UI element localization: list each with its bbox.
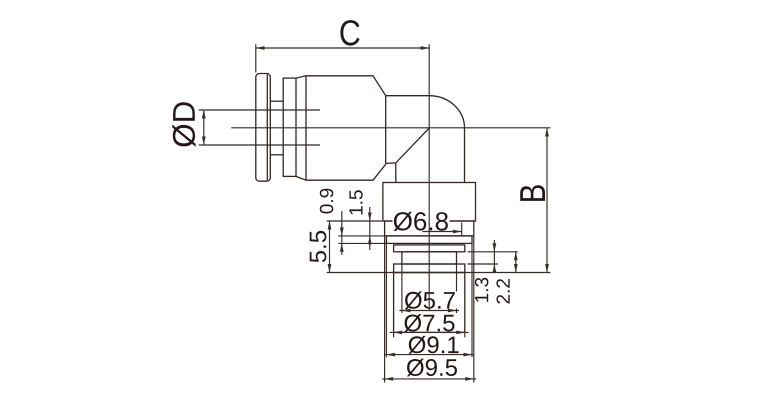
- cap inner edge: [266, 75, 268, 181]
- dimension 2.2 line: [515, 252, 517, 273]
- arrow 0.9 lower: [340, 243, 344, 252]
- label 2.2: [496, 279, 509, 304]
- dimension OD line: [203, 110, 205, 145]
- extension flange top left: [338, 235, 386, 237]
- arrow C left: [256, 46, 265, 50]
- extension 5.7 right: [456, 264, 458, 313]
- arrow 2.2 top: [514, 252, 518, 260]
- label 5.7: [405, 291, 455, 309]
- label 9.1: [409, 336, 459, 354]
- dimension 7.5 line: [390, 331, 469, 333]
- label 5.7 background: [404, 292, 458, 309]
- washer section: [385, 221, 474, 236]
- elbow outer: [386, 96, 465, 183]
- extension flange bottom left: [338, 242, 386, 244]
- dimension B line: [546, 128, 548, 273]
- extension 9.1 left: [385, 243, 387, 357]
- extension 6.8: [461, 223, 463, 236]
- label 0.9: [320, 189, 334, 214]
- arrow 9.5 right: [465, 377, 474, 381]
- extension groove top right: [468, 251, 518, 253]
- hex nut: [383, 183, 476, 222]
- arrow 1.5 lower: [368, 236, 372, 245]
- extension 7.5 right: [464, 332, 466, 337]
- extension 7.5 left: [393, 332, 395, 337]
- extension 9.5 right: [473, 236, 475, 383]
- label 6.8: [394, 212, 448, 231]
- label 1.5: [349, 190, 362, 214]
- dimension 1.5 line: [369, 207, 371, 250]
- arrow 1.3 upper: [493, 243, 497, 252]
- label 6.8 background: [393, 210, 450, 231]
- label B: [520, 185, 545, 201]
- centerline horizontal: [231, 127, 550, 129]
- arrow 5.5 bottom: [328, 264, 332, 273]
- thread barrel: [394, 273, 465, 333]
- arrow B bottom: [545, 264, 549, 273]
- extension line C left: [255, 44, 257, 72]
- arrow 9.1 right: [464, 353, 473, 357]
- arrow 6.8: [453, 230, 462, 234]
- extension groove bottom right: [468, 263, 499, 265]
- arrow 1.5 upper: [368, 213, 372, 222]
- arrow OD down: [202, 137, 206, 146]
- bore line upper: [199, 109, 320, 111]
- arrow 2.2 bottom: [514, 264, 518, 273]
- collet ring: [283, 78, 296, 176]
- dimension 0.9 line: [341, 211, 343, 255]
- dimension 9.1 line: [384, 354, 474, 356]
- label 5.5: [310, 231, 327, 262]
- dimension 5.7 line: [399, 310, 459, 312]
- upper lip: [394, 245, 465, 252]
- lower lip: [394, 264, 465, 273]
- arrow 5.5 top: [328, 221, 332, 230]
- leader 6.8 line: [422, 231, 461, 233]
- extension nut bottom left: [327, 220, 383, 222]
- arrow 9.5 left: [385, 377, 394, 381]
- arrow OD up: [202, 110, 206, 119]
- label C: [340, 20, 359, 46]
- arrow C right: [421, 46, 430, 50]
- label 7.5 background: [404, 314, 456, 332]
- dimension 9.5 line: [382, 378, 476, 380]
- body outline: [296, 76, 386, 180]
- arrow 0.9 upper: [340, 227, 344, 236]
- groove: [402, 252, 457, 264]
- extension thread start full: [327, 272, 551, 274]
- arrow 7.5 left: [394, 331, 403, 335]
- arrow B top: [545, 128, 549, 137]
- dimension 1.3 line: [493, 240, 495, 273]
- arrow 1.3 lower: [493, 264, 497, 273]
- dimension C line: [256, 47, 429, 49]
- dimension 5.5 line: [329, 221, 331, 273]
- label 1.3: [475, 278, 489, 302]
- label 7.5: [404, 314, 454, 332]
- centerline vertical: [428, 44, 430, 310]
- arrow 5.7 right: [448, 309, 457, 313]
- arrow 7.5 right: [456, 331, 465, 335]
- tube step lower line: [270, 154, 283, 156]
- release ring cap: [256, 74, 270, 182]
- elbow inner: [386, 128, 430, 183]
- arrow 5.7 left: [402, 309, 411, 313]
- bore line lower: [199, 144, 320, 146]
- extension 9.5 left: [384, 236, 386, 383]
- label OD: [172, 102, 195, 147]
- flange: [386, 236, 472, 244]
- label 9.5: [407, 359, 457, 377]
- extension 9.1 right: [471, 243, 473, 357]
- tube step upper line: [270, 100, 283, 102]
- arrow 9.1 left: [386, 353, 395, 357]
- extension 5.7 left: [401, 264, 403, 313]
